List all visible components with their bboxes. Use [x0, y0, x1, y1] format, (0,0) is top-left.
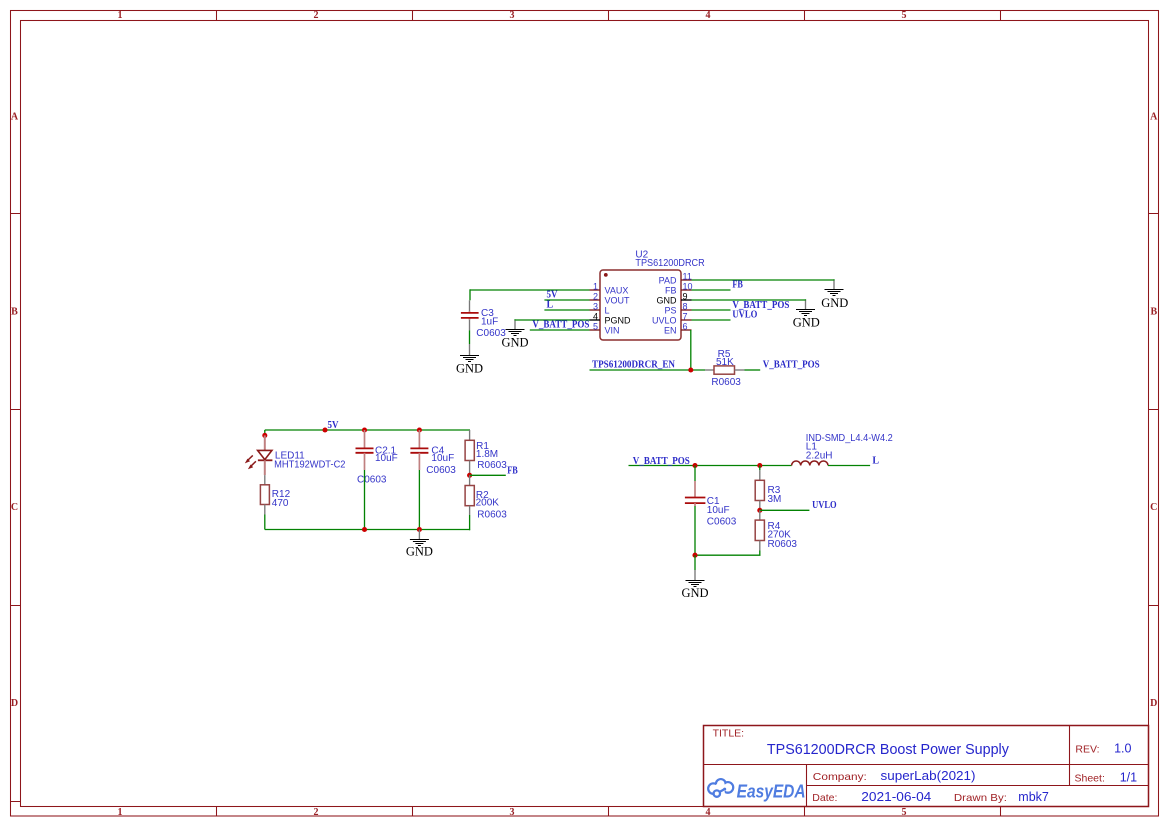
- wire L net at pin3: [544, 309, 589, 311]
- svg-text:GND: GND: [456, 361, 483, 375]
- svg-text:D: D: [11, 698, 18, 709]
- svg-text:UVLO: UVLO: [652, 315, 677, 325]
- svg-text:7: 7: [683, 311, 688, 321]
- svg-text:1: 1: [118, 807, 123, 818]
- junction C2.1 bottom: [362, 527, 367, 532]
- svg-text:5: 5: [902, 10, 907, 21]
- svg-text:10uF: 10uF: [431, 453, 454, 464]
- svg-text:1.0: 1.0: [1114, 741, 1131, 755]
- svg-text:mbk7: mbk7: [1018, 790, 1049, 804]
- U2 pin 9 GND stub (black): [681, 299, 692, 301]
- svg-text:FB: FB: [665, 285, 677, 295]
- svg-text:GND: GND: [821, 296, 848, 310]
- capacitor C1: [685, 466, 706, 507]
- resistor R12: [260, 475, 269, 514]
- ground pin9: [793, 301, 820, 330]
- svg-text:2021-06-04: 2021-06-04: [861, 790, 931, 804]
- wire VAUX to C3 horizontal: [470, 289, 590, 291]
- svg-text:470: 470: [272, 498, 289, 509]
- wire PS net: [692, 309, 731, 311]
- svg-text:3M: 3M: [768, 494, 782, 505]
- wire rail to LED: [264, 430, 266, 435]
- wire C1 to bottom junction: [694, 506, 696, 555]
- svg-text:MHT192WDT-C2: MHT192WDT-C2: [274, 460, 346, 471]
- svg-text:UVLO: UVLO: [812, 500, 837, 511]
- svg-text:GND: GND: [657, 295, 678, 305]
- svg-text:2: 2: [314, 807, 319, 818]
- ruler row ticks right: [1149, 214, 1159, 606]
- svg-text:C0603: C0603: [357, 474, 387, 485]
- U2 pin 5 VIN stub: [590, 329, 601, 331]
- wire C4 to bottom rail: [418, 470, 420, 530]
- wire V_BATT_POS main rail: [629, 465, 792, 467]
- svg-text:1.8M: 1.8M: [476, 449, 498, 460]
- wire R12 to bottom rail: [264, 515, 266, 530]
- wire R2 to bottom rail: [469, 515, 470, 530]
- wire PAD to ground: [692, 279, 835, 280]
- svg-text:VIN: VIN: [605, 325, 620, 335]
- svg-text:2.2uH: 2.2uH: [806, 450, 833, 461]
- U2 pin 4 PGND stub (black): [590, 319, 601, 321]
- ruler row ticks left: [11, 214, 21, 802]
- resistor R3: [755, 466, 764, 511]
- svg-text:superLab(2021): superLab(2021): [881, 769, 976, 783]
- capacitor C2.1: [356, 430, 374, 470]
- svg-text:10uF: 10uF: [375, 453, 398, 464]
- svg-text:V_BATT_POS: V_BATT_POS: [633, 456, 690, 467]
- wire TPS61200DRCR_EN horizontal: [590, 369, 706, 371]
- junction UVLO divider: [757, 508, 762, 513]
- svg-text:A: A: [11, 112, 19, 123]
- ground C3: [456, 344, 483, 375]
- svg-text:FB: FB: [507, 465, 518, 476]
- U2 pin 2 VOUT stub: [590, 299, 601, 301]
- svg-text:GND: GND: [406, 545, 433, 559]
- junction R3 top: [757, 463, 762, 468]
- svg-text:51K: 51K: [716, 357, 734, 368]
- svg-text:10uF: 10uF: [707, 505, 730, 516]
- title block outline: [704, 726, 1149, 807]
- EasyEDA logo cloud: [708, 779, 733, 798]
- junction C4 top: [417, 427, 422, 432]
- svg-text:11: 11: [683, 271, 692, 281]
- wire FB net at pin10: [692, 289, 731, 291]
- wire R5 to V_BATT_POS: [745, 369, 761, 371]
- svg-text:PAD: PAD: [659, 275, 677, 285]
- svg-text:2: 2: [314, 10, 319, 21]
- ground PAD: [821, 281, 848, 311]
- svg-text:6: 6: [683, 321, 688, 331]
- svg-text:C: C: [1150, 502, 1157, 513]
- svg-text:PS: PS: [664, 305, 676, 315]
- svg-text:200K: 200K: [476, 498, 500, 509]
- svg-text:1/1: 1/1: [1120, 771, 1137, 785]
- svg-text:4: 4: [593, 311, 598, 321]
- wire VIN net label stub: [530, 329, 590, 331]
- svg-text:A: A: [1150, 112, 1158, 123]
- svg-text:D: D: [1150, 698, 1157, 709]
- svg-text:FB: FB: [732, 280, 743, 291]
- U2 pin 1 VAUX stub: [590, 289, 601, 291]
- svg-text:3: 3: [593, 301, 598, 311]
- wire C3 to ground: [469, 330, 471, 344]
- svg-text:9: 9: [683, 291, 688, 301]
- wire PGND to ground: [515, 319, 590, 320]
- svg-text:C0603: C0603: [476, 328, 506, 339]
- wire C2.1 to bottom rail: [364, 470, 366, 530]
- svg-text:Company:: Company:: [813, 771, 867, 783]
- wire left circuit top rail: [265, 429, 470, 431]
- svg-text:TPS61200DRCR: TPS61200DRCR: [635, 258, 704, 269]
- resistor R1: [465, 430, 474, 475]
- svg-text:3: 3: [510, 10, 515, 21]
- LED LED11: [245, 435, 273, 475]
- wire left circuit bottom rail: [265, 529, 470, 531]
- svg-text:C0603: C0603: [707, 517, 737, 528]
- wire R4 to bottom wire: [695, 551, 761, 556]
- svg-text:5V: 5V: [328, 420, 340, 431]
- ground PGND: [501, 321, 528, 350]
- svg-text:5: 5: [902, 807, 907, 818]
- svg-text:GND: GND: [793, 315, 820, 329]
- U2 pin 10 FB stub: [681, 289, 692, 291]
- wire VAUX corner down to C3: [469, 289, 471, 300]
- wire EN down: [690, 330, 692, 370]
- U2 pin 11 PAD stub: [681, 279, 692, 281]
- U2 pin 8 PS stub: [681, 309, 692, 311]
- svg-text:EasyEDA: EasyEDA: [737, 781, 806, 801]
- svg-text:4: 4: [706, 807, 711, 818]
- junction FB divider: [467, 473, 472, 478]
- svg-text:IND-SMD_L4.4-W4.2: IND-SMD_L4.4-W4.2: [806, 433, 893, 444]
- junction bottom GND: [692, 553, 697, 558]
- resistor R5: [705, 366, 745, 374]
- wire junction to ground: [694, 555, 696, 570]
- svg-text:UVLO: UVLO: [732, 310, 757, 321]
- svg-text:R0603: R0603: [768, 539, 798, 550]
- svg-text:TITLE:: TITLE:: [713, 727, 745, 739]
- wire UVLO stub: [760, 509, 810, 511]
- svg-text:5: 5: [593, 321, 598, 331]
- junction C2.1 top: [362, 427, 367, 432]
- U2 pin 6 EN stub: [681, 329, 692, 331]
- junction LED top: [262, 433, 267, 438]
- wire 5V net at VOUT: [544, 299, 589, 301]
- svg-text:PGND: PGND: [605, 315, 632, 325]
- svg-text:10: 10: [683, 281, 693, 291]
- svg-text:3: 3: [510, 807, 515, 818]
- svg-text:L: L: [605, 305, 610, 315]
- svg-text:8: 8: [683, 301, 688, 311]
- svg-text:R0603: R0603: [477, 460, 507, 471]
- svg-text:C: C: [11, 502, 18, 513]
- wire L1 to L net: [828, 465, 870, 467]
- svg-text:V_BATT_POS: V_BATT_POS: [532, 320, 589, 331]
- ruler column ticks bottom: [217, 807, 1001, 817]
- op-amp U2 TPS61200DRCR body: [600, 270, 681, 340]
- junction C1 top: [692, 463, 697, 468]
- svg-text:R0603: R0603: [711, 377, 741, 388]
- U2 pin 7 UVLO stub: [681, 319, 692, 321]
- wire FB stub: [470, 474, 506, 476]
- svg-text:EN: EN: [664, 325, 677, 335]
- inductor L1 coil: [792, 461, 828, 466]
- resistor R2: [465, 475, 474, 515]
- wire UVLO net: [692, 319, 731, 321]
- resistor R4: [755, 510, 764, 550]
- svg-text:R0603: R0603: [477, 509, 507, 520]
- svg-text:Sheet:: Sheet:: [1075, 773, 1105, 785]
- svg-text:B: B: [1150, 307, 1157, 318]
- svg-text:Drawn By:: Drawn By:: [954, 792, 1007, 804]
- U2 pin 3 L stub: [590, 309, 601, 311]
- junction EN/R5: [688, 367, 693, 372]
- svg-text:B: B: [11, 307, 18, 318]
- svg-text:L: L: [872, 456, 879, 467]
- ruler column ticks top: [217, 11, 1001, 21]
- svg-text:L: L: [547, 300, 554, 311]
- ground right circuit: [681, 570, 708, 600]
- svg-text:Date:: Date:: [812, 792, 837, 804]
- capacitor C4: [410, 430, 428, 470]
- svg-text:V_BATT_POS: V_BATT_POS: [763, 360, 820, 371]
- svg-text:REV:: REV:: [1075, 744, 1099, 756]
- svg-text:C0603: C0603: [426, 465, 456, 476]
- junction C4 bottom: [417, 527, 422, 532]
- svg-text:1: 1: [118, 10, 123, 21]
- svg-text:2: 2: [593, 291, 598, 301]
- svg-text:TPS61200DRCR Boost Power Suppl: TPS61200DRCR Boost Power Supply: [767, 742, 1010, 758]
- svg-text:VOUT: VOUT: [605, 295, 631, 305]
- ground left circuit: [406, 530, 433, 559]
- svg-text:GND: GND: [681, 586, 708, 600]
- svg-text:4: 4: [706, 10, 711, 21]
- capacitor C3: [461, 300, 479, 330]
- svg-text:1: 1: [593, 281, 598, 291]
- svg-text:TPS61200DRCR_EN: TPS61200DRCR_EN: [592, 359, 676, 370]
- wire GND pin9 to ground: [692, 299, 806, 300]
- junction 5V rail: [322, 427, 327, 432]
- svg-text:1uF: 1uF: [481, 316, 498, 327]
- svg-text:VAUX: VAUX: [605, 285, 629, 295]
